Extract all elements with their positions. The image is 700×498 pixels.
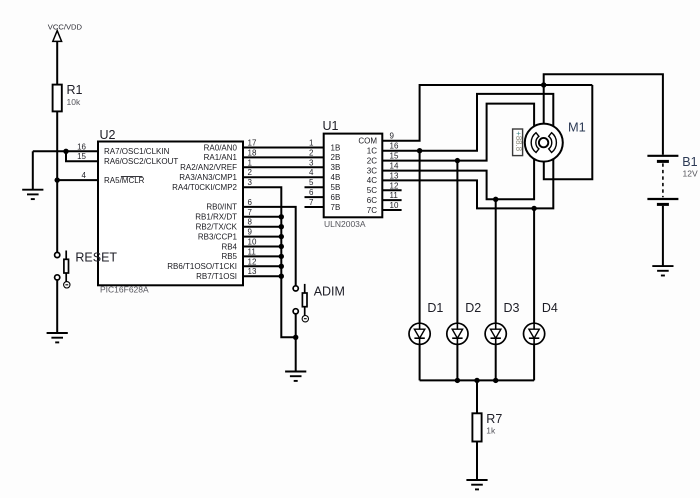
svg-text:5C: 5C (367, 186, 377, 195)
svg-text:16: 16 (390, 142, 399, 151)
svg-text:10k: 10k (67, 97, 81, 107)
motor M1 stepper symbol (525, 124, 563, 162)
op chip U2 PIC16F628A box (98, 142, 243, 286)
svg-text:RB2/TX/CK: RB2/TX/CK (196, 223, 238, 232)
svg-text:RA0/AN0: RA0/AN0 (204, 143, 238, 152)
svg-text:RA3/AN3/CMP1: RA3/AN3/CMP1 (179, 173, 237, 182)
svg-text:B1: B1 (682, 155, 697, 169)
wire RB4 to bus (243, 246, 281, 248)
power symbol VCC/VDD (53, 31, 62, 42)
wire RA1-2B (243, 156, 324, 158)
svg-text:RB3/CCP1: RB3/CCP1 (198, 232, 238, 241)
svg-text:3: 3 (309, 158, 314, 167)
wire RESET to ground (56, 280, 58, 333)
wire 4C to motor coil D (382, 154, 553, 208)
wire RB2 to bus (243, 226, 281, 228)
wire stub 7B (305, 206, 324, 208)
svg-text:9: 9 (248, 228, 253, 237)
svg-text:18: 18 (248, 148, 257, 157)
ground ADIM (285, 372, 306, 381)
svg-text:D4: D4 (542, 301, 558, 315)
svg-text:ADIM: ADIM (314, 285, 345, 299)
svg-text:4C: 4C (367, 176, 377, 185)
wire stub 6C (382, 199, 401, 201)
ground RESET (47, 333, 68, 342)
wire RA0-1B (243, 147, 324, 149)
svg-text:RESET: RESET (75, 251, 117, 265)
svg-text:10: 10 (248, 238, 257, 247)
svg-text:9: 9 (390, 132, 395, 141)
wire OSC2 riser+line (pin15) (66, 151, 98, 161)
wire B1- to ground (662, 206, 664, 266)
svg-text:RB4: RB4 (221, 242, 237, 251)
svg-text:5B: 5B (331, 183, 341, 192)
svg-text:10: 10 (390, 201, 399, 210)
svg-text:R7: R7 (486, 412, 502, 426)
push button ADIM (293, 284, 308, 322)
svg-text:7B: 7B (331, 203, 341, 212)
wire 2C to motor coil B (382, 104, 534, 161)
svg-text:13: 13 (390, 171, 399, 180)
resistor R1 (53, 85, 62, 112)
svg-text:17: 17 (248, 139, 257, 148)
wire stub 7C (382, 209, 401, 211)
LED D3 (485, 323, 506, 344)
svg-text:3C: 3C (367, 166, 377, 175)
U2 MCLR overline (121, 176, 143, 178)
svg-text:6C: 6C (367, 196, 377, 205)
svg-text:+88.8: +88.8 (514, 131, 523, 151)
wire RB5 to bus (243, 255, 281, 257)
svg-text:13: 13 (248, 267, 257, 276)
svg-text:4: 4 (82, 171, 87, 180)
wire R1 to RESET (through MCLR node) (56, 111, 58, 252)
svg-text:U1: U1 (323, 119, 339, 133)
wire stub 6B (305, 196, 324, 198)
svg-text:8: 8 (248, 218, 253, 227)
wire RB7 to bus (243, 275, 281, 277)
wire to ground left (32, 151, 34, 189)
svg-text:15: 15 (390, 152, 399, 161)
wire 4C to D4 (533, 208, 535, 380)
wire 3C to D3 (495, 199, 497, 380)
svg-text:R1: R1 (67, 83, 83, 97)
LED D4 (524, 323, 545, 344)
svg-text:RB0/INT: RB0/INT (206, 203, 237, 212)
svg-text:RB6/T1OSO/T1CKI: RB6/T1OSO/T1CKI (167, 262, 237, 271)
svg-text:VCC/VDD: VCC/VDD (48, 22, 83, 31)
wire VCC to R1 (56, 41, 58, 85)
svg-text:COM: COM (358, 137, 377, 146)
svg-text:2C: 2C (367, 156, 377, 165)
svg-text:ULN2003A: ULN2003A (324, 219, 366, 229)
svg-text:U2: U2 (100, 128, 116, 142)
svg-text:11: 11 (390, 191, 399, 200)
wire motor wrap to bottom common (544, 85, 593, 179)
wire stub 5B (305, 186, 324, 188)
svg-text:RB7/T1OSI: RB7/T1OSI (196, 272, 237, 281)
svg-text:1C: 1C (367, 147, 377, 156)
wire LED cathode rail (420, 379, 534, 381)
svg-text:2: 2 (248, 168, 253, 177)
svg-text:2B: 2B (331, 153, 341, 162)
svg-text:7: 7 (309, 198, 314, 207)
wire RA4 to RB bus (243, 187, 296, 337)
svg-text:6: 6 (248, 198, 253, 207)
svg-text:4B: 4B (331, 173, 341, 182)
svg-text:6: 6 (309, 188, 314, 197)
svg-text:12V: 12V (683, 168, 698, 178)
wire 3C to motor coil C (382, 154, 534, 199)
svg-text:6B: 6B (331, 193, 341, 202)
wire 1C to motor coil A (382, 94, 553, 151)
svg-text:12: 12 (248, 257, 257, 266)
wire COM to supply rail (382, 85, 592, 141)
svg-text:16: 16 (77, 142, 86, 151)
wire supply to battery B1+ (544, 74, 663, 155)
svg-text:3: 3 (248, 178, 253, 187)
wire MCLR line (pin4) (57, 179, 98, 181)
wire 2C to D2 (456, 161, 458, 381)
wire motor common top (543, 85, 545, 142)
svg-text:RA2/AN2/VREF: RA2/AN2/VREF (180, 163, 237, 172)
LED D2 (447, 323, 468, 344)
svg-text:14: 14 (390, 162, 399, 171)
svg-text:PIC16F628A: PIC16F628A (100, 285, 149, 295)
svg-text:1k: 1k (486, 426, 496, 436)
svg-text:11: 11 (248, 247, 257, 256)
wire 1C to D1 (419, 151, 421, 381)
svg-text:3B: 3B (331, 163, 341, 172)
ground left (OSC) (22, 190, 43, 199)
wire rail to R7 (476, 380, 478, 413)
svg-text:RA7/OSC1/CLKIN: RA7/OSC1/CLKIN (104, 147, 170, 156)
motor M1 display box (513, 129, 523, 156)
wire ADIM to ground (295, 314, 297, 372)
svg-text:7: 7 (248, 208, 253, 217)
resistor R7 (472, 413, 481, 441)
svg-text:D3: D3 (504, 301, 520, 315)
svg-text:2: 2 (309, 148, 314, 157)
svg-text:1: 1 (309, 139, 314, 148)
svg-text:RA4/T0CKI/CMP2: RA4/T0CKI/CMP2 (172, 183, 237, 192)
svg-text:RB1/RX/DT: RB1/RX/DT (195, 213, 237, 222)
svg-text:M1: M1 (568, 120, 586, 135)
svg-text:RB5: RB5 (221, 252, 237, 261)
push button RESET (55, 251, 70, 288)
svg-text:5: 5 (309, 178, 314, 187)
svg-text:RA6/OSC2/CLKOUT: RA6/OSC2/CLKOUT (104, 157, 178, 166)
svg-text:D2: D2 (465, 301, 481, 315)
wire RA2-3B (243, 166, 324, 168)
svg-text:1B: 1B (331, 143, 341, 152)
ground B1 (652, 266, 673, 275)
wire R7 to ground (476, 442, 478, 481)
svg-text:1: 1 (248, 158, 253, 167)
svg-text:12: 12 (390, 181, 399, 190)
wire RA3-4B (243, 176, 324, 178)
LED D1 (409, 323, 430, 344)
wire RB6 to bus (243, 265, 281, 267)
wire RB3 to bus (243, 236, 281, 238)
wire OSC1 line (pin16) (33, 150, 98, 152)
svg-text:RA1/AN1: RA1/AN1 (204, 153, 238, 162)
svg-text:D1: D1 (427, 301, 443, 315)
wire stub 5C (382, 189, 401, 191)
svg-text:7C: 7C (367, 206, 377, 215)
svg-text:15: 15 (77, 152, 86, 161)
ground R7 (466, 480, 487, 489)
battery B1 (647, 156, 678, 205)
svg-text:RA5/MCLR: RA5/MCLR (104, 176, 145, 185)
svg-text:4: 4 (309, 168, 314, 177)
wire RB0 to ADIM (243, 207, 296, 286)
wire RB1 to bus (243, 216, 281, 218)
chip U1 ULN2003A box (324, 134, 383, 218)
